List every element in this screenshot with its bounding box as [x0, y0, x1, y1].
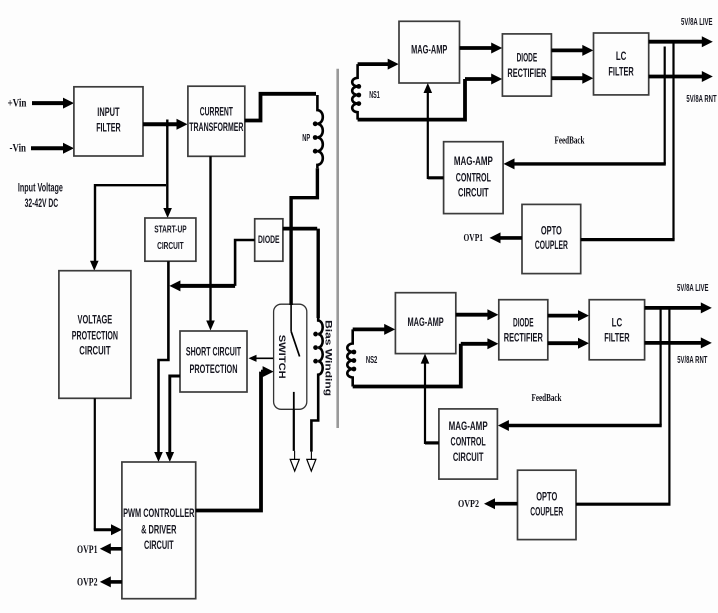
winding NS2	[347, 329, 377, 386]
wire input filter to current transformer	[143, 119, 188, 130]
svg-text:NP: NP	[302, 132, 310, 144]
svg-text:PWM CONTROLLER: PWM CONTROLLER	[123, 506, 194, 520]
svg-text:OVP1: OVP1	[464, 232, 484, 244]
block diode rectifier U7 ch1	[502, 34, 551, 96]
wire +Vin input arrow	[32, 98, 74, 109]
separator line between primary and secondary sections	[336, 69, 339, 428]
wire diode rectifier to lc filter bottom ch2	[548, 338, 589, 349]
label NP wire primary to switch	[291, 168, 317, 305]
svg-text:FILTER: FILTER	[608, 64, 633, 78]
wire diode to bias winding	[283, 229, 318, 318]
svg-text:FILTER: FILTER	[96, 121, 121, 135]
wire feedback to mag-amp control ch1	[504, 158, 666, 169]
svg-text:OPTO: OPTO	[541, 224, 562, 238]
svg-text:5V/8A LIVE: 5V/8A LIVE	[677, 283, 709, 294]
svg-text:START-UP: START-UP	[154, 225, 186, 236]
svg-text:FeedBack: FeedBack	[555, 136, 585, 147]
wire start-up circuit to pwm controller	[154, 261, 168, 462]
label OVP2 left	[77, 576, 98, 588]
svg-text:-Vin: -Vin	[10, 141, 27, 155]
svg-text:SHORT CIRCUIT: SHORT CIRCUIT	[186, 345, 241, 359]
svg-text:OVP2: OVP2	[77, 576, 98, 588]
svg-text:MAG-AMP: MAG-AMP	[408, 315, 444, 329]
wire output 5V/8A LIVE ch2	[645, 302, 712, 313]
wire opto tap ch2	[668, 308, 670, 504]
svg-text:TRANSFORMER: TRANSFORMER	[189, 120, 243, 134]
svg-text:CIRCUIT: CIRCUIT	[144, 538, 174, 552]
block lc filter U13 ch2	[589, 300, 644, 360]
block opto coupler U15 ch2	[518, 470, 577, 539]
wire output 5V/8A LIVE ch1	[649, 36, 713, 47]
wire voltage protection to pwm controller	[94, 398, 122, 535]
svg-text:CURRENT: CURRENT	[200, 105, 233, 119]
wire pwm controller to switch	[196, 366, 274, 510]
label 5V/8A LIVE ch1	[681, 17, 713, 28]
node junction A on input rail	[166, 120, 168, 128]
svg-text:COUPLER: COUPLER	[535, 238, 568, 252]
wire output 5V/8A RNT ch1	[649, 71, 713, 82]
wire diode rectifier to lc filter top ch2	[548, 310, 589, 321]
wire mag-amp control to mag-amp ch2	[421, 354, 439, 444]
wire NS2 to mag-amp ch2	[353, 324, 396, 335]
block short circuit protection U4	[180, 331, 247, 392]
label OVP1 ch1	[464, 232, 484, 244]
block voltage protection circuit U3	[59, 271, 131, 399]
block pwm controller and driver circuit U5	[122, 462, 196, 599]
label Bias Winding	[323, 320, 334, 396]
wire bias winding to ground	[311, 376, 318, 460]
svg-text:INPUT: INPUT	[97, 105, 120, 119]
svg-text:DIODE: DIODE	[517, 51, 538, 65]
wire pwm OVP1 output arrow	[100, 543, 122, 554]
svg-text:MAG-AMP: MAG-AMP	[454, 154, 493, 168]
wire feedback tap ch1	[664, 47, 666, 164]
svg-text:NS1: NS1	[369, 90, 380, 101]
svg-text:5V/8A RNT: 5V/8A RNT	[686, 94, 716, 105]
svg-text:CIRCUIT: CIRCUIT	[157, 241, 184, 252]
svg-text:VOLTAGE: VOLTAGE	[78, 312, 113, 326]
wire switch to ground	[293, 409, 296, 459]
wire NS1 to mag-amp ch1	[358, 59, 399, 70]
svg-text:RECTIFIER: RECTIFIER	[504, 331, 543, 345]
svg-text:PROTECTION: PROTECTION	[190, 362, 238, 376]
block mag-amp U6 ch1	[399, 21, 460, 83]
node -Vin	[10, 141, 27, 155]
block input filter U1	[74, 87, 143, 156]
label 5V/8A RNT ch2	[677, 355, 707, 366]
svg-text:CONTROL: CONTROL	[451, 435, 486, 449]
wire switch to short circuit protection	[249, 355, 274, 362]
wire short circuit protection to pwm controller	[166, 376, 181, 462]
wire NS2 return to diode rectifier ch2	[353, 338, 499, 386]
label OVP1 left	[77, 544, 98, 556]
wire current transformer to short circuit protection	[206, 156, 215, 330]
block start-up circuit U2	[145, 218, 196, 261]
wire feedback tap ch2	[659, 308, 661, 426]
switch contact symbol	[291, 304, 300, 409]
block mag-amp control circuit U14 ch2	[439, 409, 498, 479]
wire mag-amp to diode rectifier ch2	[456, 309, 499, 320]
wire NS1 return to diode rectifier ch1	[358, 74, 503, 120]
winding NS1	[352, 64, 380, 120]
block mag-amp control circuit U9 ch1	[444, 142, 504, 214]
svg-text:LC: LC	[612, 316, 623, 330]
block diode D1	[255, 219, 283, 261]
wire diode rectifier to lc filter top ch1	[551, 45, 593, 56]
svg-text:OVP1: OVP1	[77, 544, 98, 556]
svg-text:CIRCUIT: CIRCUIT	[79, 343, 111, 357]
svg-text:PROTECTION: PROTECTION	[72, 328, 118, 342]
svg-text:COUPLER: COUPLER	[530, 505, 563, 519]
svg-text:CONTROL: CONTROL	[456, 171, 491, 185]
label input voltage 32-42V DC	[18, 181, 63, 211]
wire junction to start-up circuit	[163, 124, 172, 218]
wire pwm OVP2 output arrow	[100, 576, 122, 587]
wire opto coupler input ch1	[581, 238, 675, 241]
wire opto tap ch1	[672, 42, 674, 240]
svg-text:OVP2: OVP2	[458, 498, 479, 510]
wire branch to voltage protection	[90, 184, 166, 271]
label 5V/8A LIVE ch2	[677, 283, 709, 294]
svg-text:DIODE: DIODE	[513, 316, 534, 330]
svg-text:MAG-AMP: MAG-AMP	[411, 42, 447, 56]
svg-text:RECTIFIER: RECTIFIER	[507, 66, 546, 80]
wire mag-amp control to mag-amp ch1	[424, 83, 444, 179]
ground symbol under switch	[290, 459, 299, 471]
svg-text:& DRIVER: & DRIVER	[141, 523, 176, 537]
block diode rectifier U12 ch2	[499, 300, 548, 360]
block mag-amp U11 ch2	[395, 293, 455, 354]
svg-text:5V/8A LIVE: 5V/8A LIVE	[681, 17, 713, 28]
block lc filter U8 ch1	[594, 33, 649, 95]
svg-text:Bias Winding: Bias Winding	[323, 320, 334, 396]
svg-text:CIRCUIT: CIRCUIT	[458, 186, 489, 200]
block switch Q1	[274, 304, 307, 409]
svg-text:FeedBack: FeedBack	[532, 393, 562, 404]
svg-text:FILTER: FILTER	[604, 331, 629, 345]
svg-text:LC: LC	[616, 49, 627, 63]
svg-text:MAG-AMP: MAG-AMP	[449, 419, 488, 433]
svg-text:+Vin: +Vin	[8, 96, 27, 110]
wire opto coupler input ch2	[576, 503, 671, 506]
svg-text:DIODE: DIODE	[258, 234, 280, 246]
wire opto to OVP2 ch2	[484, 498, 518, 509]
winding Bias of transformer	[313, 318, 323, 376]
wire opto to OVP1 ch1	[490, 232, 523, 243]
wire output 5V/8A RNT ch2	[645, 337, 712, 348]
block current transformer T1	[188, 86, 245, 156]
block opto coupler U10 ch1	[522, 204, 581, 273]
svg-text:CIRCUIT: CIRCUIT	[453, 450, 484, 464]
label FeedBack ch1	[555, 136, 585, 147]
svg-text:NS2: NS2	[366, 355, 378, 366]
svg-text:Input Voltage: Input Voltage	[18, 181, 63, 195]
wire feedback to mag-amp control ch2	[498, 420, 662, 431]
svg-text:SWITCH: SWITCH	[276, 335, 287, 379]
wire -Vin input arrow	[31, 143, 74, 154]
label FeedBack ch2	[532, 393, 562, 404]
wire diode to start-up rail	[169, 240, 254, 291]
wire current transformer to primary winding NP	[245, 94, 316, 121]
ground symbol under bias winding	[307, 459, 316, 471]
node +Vin	[8, 96, 27, 110]
svg-text:OPTO: OPTO	[536, 490, 557, 504]
wire mag-amp to diode rectifier ch1	[460, 43, 503, 54]
svg-text:5V/8A RNT: 5V/8A RNT	[677, 355, 707, 366]
label OVP2 ch2	[458, 498, 479, 510]
wire diode rectifier to lc filter bottom ch1	[551, 73, 593, 84]
svg-text:32-42V DC: 32-42V DC	[25, 196, 59, 210]
winding NP of transformer	[302, 95, 323, 168]
label 5V/8A RNT ch1	[686, 94, 716, 105]
